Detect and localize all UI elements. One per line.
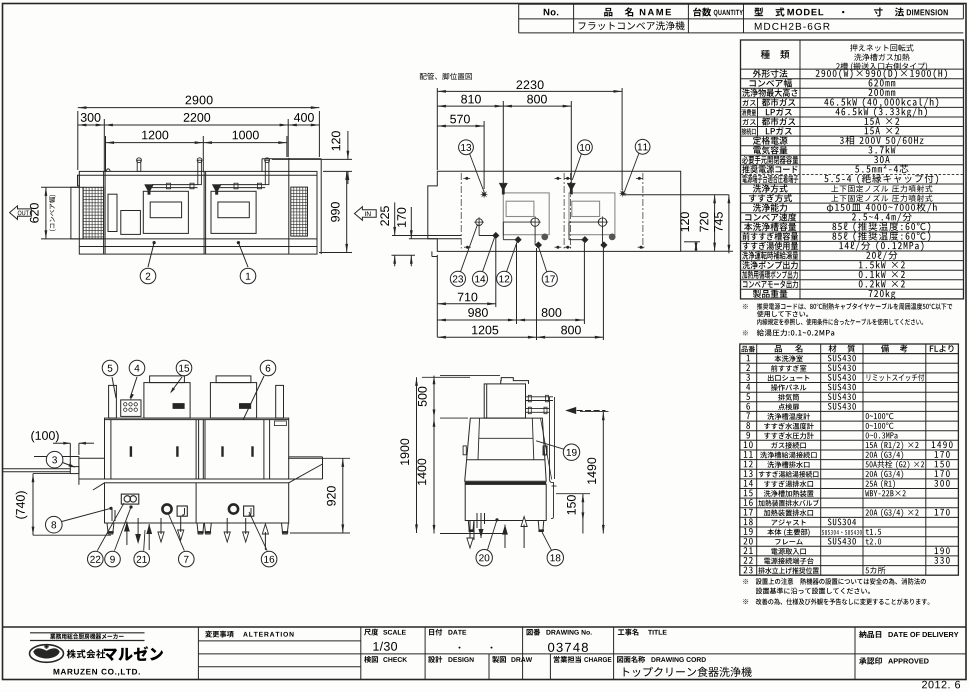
front view chimney right [276, 385, 284, 418]
front view hood 1 [144, 383, 190, 419]
piping nozzle triangle 2 [567, 183, 575, 194]
parts notes [743, 579, 748, 584]
parts row 17 加熱装置排水口 [740, 507, 959, 509]
piping nozzle triangle 1 [499, 183, 507, 194]
side view hood drain diagonal [541, 419, 552, 480]
parts row 3 出口シュート [740, 372, 959, 374]
piping view tank 2 outline [569, 193, 615, 235]
spec row 前すすぎ槽容量 [741, 231, 964, 233]
front view bottom circles [129, 505, 132, 508]
front view upper body [105, 418, 289, 479]
front view terminal box [121, 494, 139, 504]
side view base [465, 484, 546, 520]
parts row 4 操作パネル [740, 382, 959, 384]
front view inner columns [110, 420, 112, 479]
parts row 13 すすぎ湯給湯接続口 [740, 468, 959, 470]
parts table header [740, 353, 959, 355]
spec row 都市ガス [741, 97, 964, 99]
parts table [740, 344, 959, 575]
spec row 洗浄物最大高さ [741, 87, 964, 89]
spec row 定格電源 [741, 135, 964, 137]
dim 300 2200 400 [103, 119, 105, 171]
plan view right raised section [262, 158, 321, 160]
plan view partition lines [103, 171, 105, 254]
front view small vent right [274, 421, 286, 426]
dim 620 left [41, 186, 80, 188]
spec row 加熱用循環ポンプ出力 [741, 269, 964, 271]
side view dims 500 1400 1900 [440, 375, 500, 377]
parts row 18 アジャスト [740, 516, 959, 518]
maruzen logo block [30, 632, 145, 634]
piping diamonds [492, 232, 499, 239]
spec row 外形寸法 [753, 69, 788, 77]
spec row 洗浄方式 [741, 183, 964, 185]
side view pipe run second [526, 408, 550, 410]
title cell [618, 629, 639, 636]
dim 225 170 left [392, 235, 461, 237]
piping bottom dims [436, 255, 438, 337]
dim 810 800 top [502, 101, 504, 183]
parts row 5 排気筒 [740, 391, 959, 393]
parts row 6 点検扉 [740, 401, 959, 403]
front view base [105, 483, 289, 523]
dim 2230 [436, 88, 438, 170]
drawing no cell [527, 629, 541, 636]
IN arrow [355, 207, 377, 221]
spec row 電気容量 [741, 145, 964, 147]
side view hood top lip [501, 378, 529, 384]
drawing name [624, 667, 752, 677]
dim 920 [288, 457, 350, 459]
title block [3, 626, 967, 628]
parts row 9 すすぎ水圧力計 [740, 430, 959, 432]
front view valve box 1 [177, 506, 187, 516]
front view partition [195, 420, 197, 479]
parts row 21 電源取入口 [740, 545, 959, 547]
side view pipe elbow bottom [550, 479, 554, 519]
maruzen logotype [104, 646, 163, 661]
plan view top pipes tank1 [152, 184, 198, 186]
piping connection lines [478, 222, 480, 235]
parts row 2 前すすぎ室 [740, 362, 959, 364]
second row labels [488, 654, 490, 680]
spec row LPガス [741, 126, 964, 128]
dim 570 [483, 121, 485, 189]
front view control panel [121, 400, 141, 417]
spec row 電源端子台適合圧着端子 [741, 173, 964, 175]
front view circle 3 [46, 451, 63, 468]
dim 745 720 120 right [684, 241, 700, 243]
piping view tank 1 outline [503, 193, 549, 235]
side view body upper trapezoid [465, 418, 547, 481]
piping gray squares [541, 234, 548, 241]
spec row LPガス [741, 106, 964, 108]
dim (100) [31, 431, 58, 443]
spec row 製品重量 [741, 288, 964, 290]
spec row 必要手元開閉器容量 [741, 154, 964, 156]
plan view nozzle triangle 2 [212, 185, 221, 195]
spec notes [743, 304, 748, 309]
front view outfeed shelf left [34, 456, 79, 458]
parts row 10 ガス接続口 [740, 439, 959, 441]
plan view outfeed extension [71, 187, 83, 239]
front view legs [107, 523, 114, 534]
dim 1200 1000 [105, 136, 107, 171]
plan view inner small rect [121, 211, 141, 235]
side view side tabs [463, 446, 466, 455]
side view leader 19 [563, 444, 579, 460]
parts row 12 洗浄槽排水口 [740, 459, 959, 461]
top header table [518, 4, 520, 33]
dim 120 right [272, 158, 352, 160]
spec row コンベア速度 [741, 212, 964, 214]
maruzen oval logo [30, 645, 64, 663]
side view pipe run top [526, 396, 554, 398]
parts row 7 洗浄槽温度計 [740, 410, 959, 412]
header label MODEL DIMENSION [754, 8, 763, 17]
parts row 23 排水立上げ推奨位置 [740, 565, 959, 567]
spec row すすぎ方式 [741, 193, 964, 195]
date 2012.6 [922, 681, 960, 689]
front view hood 2 [210, 383, 256, 419]
piping star symbols [480, 190, 488, 198]
header label QUANTITY [693, 8, 711, 17]
plan view body outline [79, 171, 317, 254]
side view inlet arrow [565, 407, 576, 414]
front view circle 8 [46, 516, 63, 533]
spec row 洗浄能力 [741, 202, 964, 204]
plan view nozzle triangle 1 [145, 185, 154, 195]
spec row 推奨電源コード [741, 164, 964, 166]
front view chute tip [70, 467, 79, 474]
approved cell [859, 657, 882, 664]
side view dark band [465, 482, 547, 485]
label haikan kyaku-ichi-zu [420, 73, 472, 80]
product name [579, 21, 685, 30]
parts row 14 すすぎ湯排水口 [740, 478, 959, 480]
header label NAME [604, 8, 612, 17]
spec row 洗浄運転時補給湯量 [741, 250, 964, 252]
parts row 11 洗浄槽給湯接続口 [740, 449, 959, 451]
plan view conveyor hatch right [291, 187, 308, 236]
side view legs [468, 521, 474, 532]
front view pipe stubs below [111, 508, 113, 522]
side view body inner cover lines [478, 418, 480, 460]
spec row コンベアモータ出力 [741, 279, 964, 281]
front view circles top [102, 360, 118, 376]
front view drain valve 1 [162, 504, 171, 513]
plan view inner door rect [108, 194, 117, 231]
plan view pipe risers [137, 160, 141, 171]
piping circles bottom [450, 271, 465, 286]
model number MDCH2B-6GR [755, 23, 830, 30]
front view chimney left [109, 385, 117, 418]
parts row 15 洗浄槽加熱装置 [740, 488, 959, 490]
front view bottom arrows [124, 522, 130, 532]
front view door handles [130, 446, 132, 457]
front view infeed shelf right [289, 456, 323, 458]
alteration cell lines [198, 640, 360, 642]
spec row 洗浄ポンプ出力 [741, 260, 964, 262]
side view dim 1490 [580, 411, 609, 413]
spec row 種類 [741, 68, 964, 70]
side view hood [484, 384, 525, 418]
parts row 1 本洗浄室 [740, 353, 959, 355]
plan view top pipes tank2 [220, 184, 266, 186]
spec row 都市ガス [741, 116, 964, 118]
piping view outline [428, 171, 681, 251]
plan view tank 2 [211, 191, 256, 233]
piping circles 13 10 11 [459, 140, 474, 155]
spec gas group labels [757, 98, 759, 136]
spec row すすぎ湯使用量 [741, 240, 964, 242]
side view dim 150 [556, 493, 590, 495]
plan view conveyor hatch left [83, 187, 104, 239]
spec table [741, 40, 964, 299]
parts row 19 本体 (主要部) [740, 526, 959, 528]
leader circle 2 [153, 241, 156, 244]
front view valve box 2 [244, 506, 254, 516]
parts row 20 フレーム [740, 536, 959, 538]
piping view cross marks [463, 177, 470, 179]
plan view tank 1 [143, 191, 188, 233]
front view conveyor lines to border [3, 468, 71, 470]
piping long line right [623, 194, 729, 196]
parts row 22 電源接続端子台 [740, 555, 959, 557]
front view drain valve 2 [229, 504, 238, 513]
leader circle 1 [237, 241, 240, 244]
spec row 本洗浄槽容量 [741, 221, 964, 223]
scale cell [364, 629, 378, 636]
side view circles 20 18 [476, 550, 492, 566]
piping view centerlines [460, 173, 462, 249]
piping view bottom-left step [431, 251, 433, 256]
date cell [429, 629, 442, 636]
side view right pipe column [549, 397, 551, 479]
parts row 8 すすぎ水温度計 [740, 420, 959, 422]
dim 2900 [77, 111, 79, 170]
dim 990 right [319, 252, 352, 254]
header label No. [544, 9, 559, 16]
dim 1900 between views [422, 376, 470, 378]
delivery cell [859, 631, 881, 638]
dim (740) [33, 473, 70, 475]
side view bottom arrows [502, 525, 508, 535]
parts row 16 加熱装置排水バルブ [740, 497, 959, 499]
piping circle-cross symbols [476, 219, 483, 226]
spec row コンベア幅 [741, 78, 964, 80]
plan view top hook detail [106, 169, 111, 172]
OUT arrow [10, 206, 32, 220]
